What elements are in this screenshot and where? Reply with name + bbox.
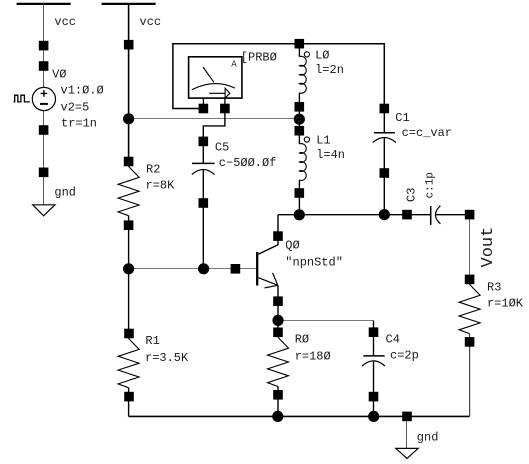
svg-text:R2: R2 [146, 163, 160, 177]
svg-text:r=8K: r=8K [146, 179, 176, 193]
svg-text:v1:Ø.Ø: v1:Ø.Ø [61, 84, 104, 98]
svg-text:tr=1n: tr=1n [61, 117, 97, 131]
svg-text:gnd: gnd [54, 186, 76, 200]
svg-text:c−5ØØ.Øf: c−5ØØ.Øf [219, 156, 277, 170]
svg-text:r=1ØK: r=1ØK [487, 297, 524, 311]
svg-text:c=c_var: c=c_var [402, 126, 452, 140]
svg-text:R3: R3 [487, 281, 501, 295]
svg-text:[PRBØ: [PRBØ [241, 51, 277, 65]
svg-text:C3: C3 [405, 188, 419, 202]
svg-text:l=4n: l=4n [316, 148, 345, 162]
svg-text:R1: R1 [145, 334, 159, 348]
svg-text:C4: C4 [386, 333, 400, 347]
svg-text:c=2p: c=2p [390, 349, 419, 363]
svg-text:QØ: QØ [285, 239, 299, 253]
svg-text:gnd: gnd [417, 431, 439, 445]
svg-text:C5: C5 [215, 141, 229, 155]
svg-text:v2=5: v2=5 [61, 101, 90, 115]
svg-text:vcc: vcc [54, 15, 76, 29]
svg-text:VØ: VØ [52, 68, 66, 82]
svg-text:vcc: vcc [140, 15, 162, 29]
svg-text:RØ: RØ [295, 333, 309, 347]
svg-text:A: A [231, 59, 237, 69]
svg-text:L1: L1 [316, 134, 330, 148]
svg-text:C1: C1 [395, 111, 409, 125]
svg-text:Vout: Vout [479, 227, 498, 268]
svg-text:"npnStd": "npnStd" [285, 256, 343, 270]
svg-text:r=18Ø: r=18Ø [295, 350, 331, 364]
svg-text:l=2n: l=2n [315, 63, 344, 77]
svg-text:LØ: LØ [315, 49, 329, 63]
svg-text:c:1p: c:1p [424, 172, 436, 198]
svg-text:r=3.5K: r=3.5K [145, 351, 189, 365]
